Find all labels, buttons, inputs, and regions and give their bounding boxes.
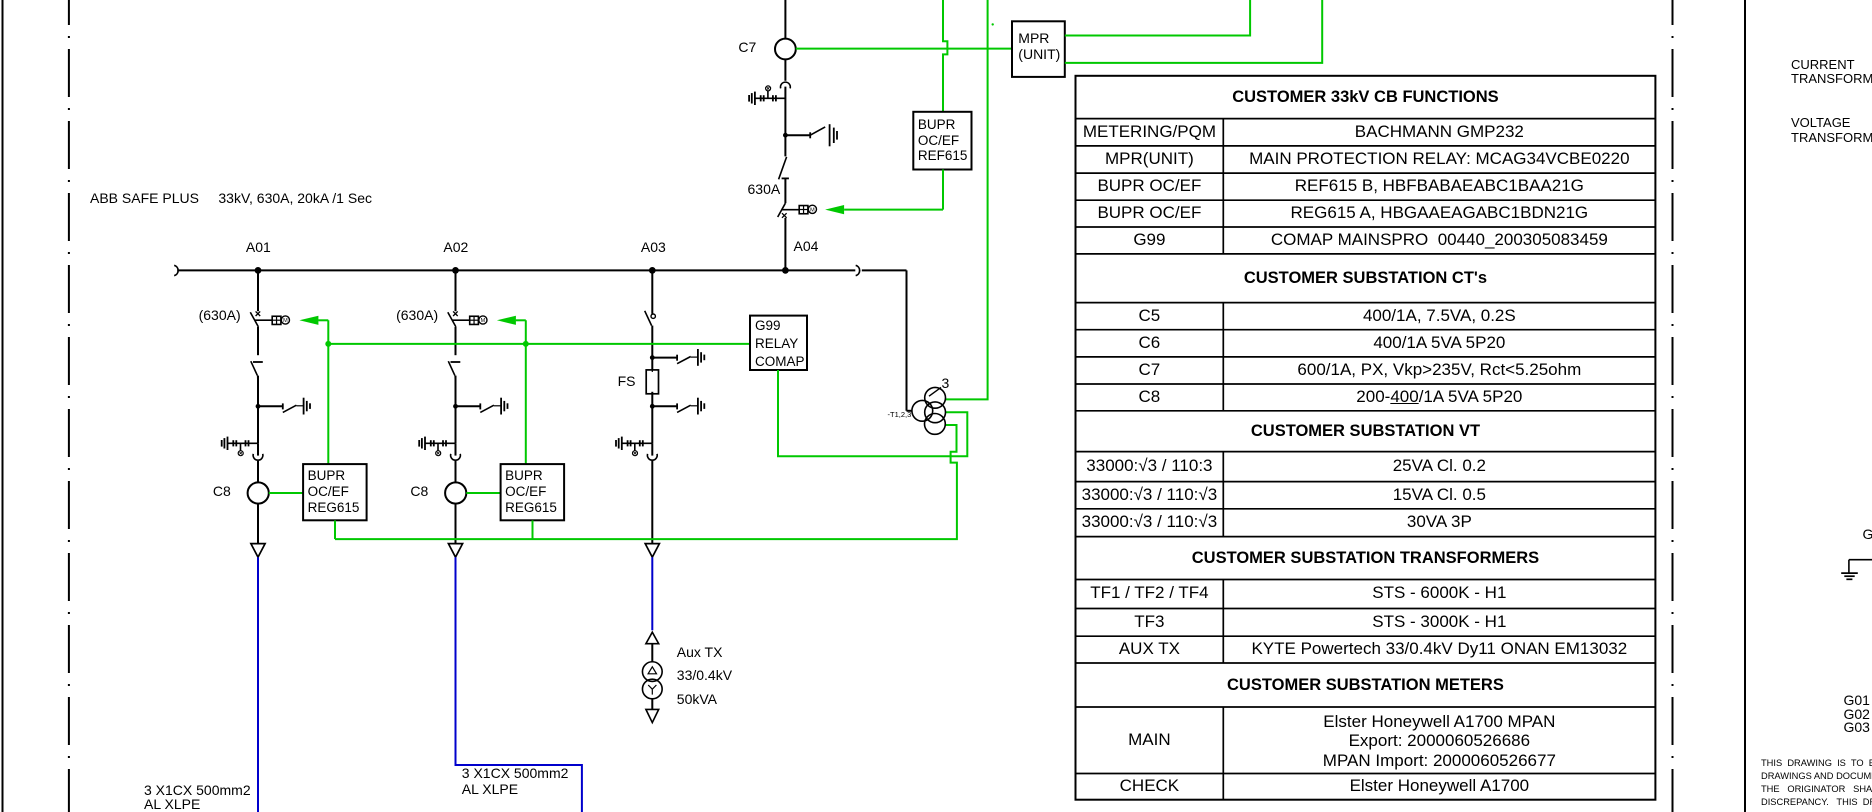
- table header CUSTOMER 33kV CB FUNCTIONS: [1076, 87, 1656, 107]
- table row METERING/PQM: [1076, 122, 1224, 143]
- text relay G99 line2: [755, 337, 798, 351]
- label C8 A01: [213, 484, 231, 498]
- label cable A02 line2: [462, 782, 518, 796]
- node A01 earth tap: [256, 404, 261, 409]
- table row VT3: [1076, 512, 1224, 533]
- node A03: [649, 267, 656, 274]
- wire A03 to plug contact: [651, 443, 653, 455]
- relay BUPR OC/EF REF615: [913, 112, 971, 170]
- current transformer C8 A02: [445, 482, 466, 503]
- table row TF1/TF2/TF4: [1076, 583, 1224, 604]
- wire Aux TX secondary: [651, 699, 653, 710]
- wire interlock A01 to BUPR relay: [318, 320, 328, 464]
- cable termination of A02: [448, 544, 462, 558]
- cable termination of A03: [645, 544, 659, 558]
- wire MPR output 1 to top: [1065, 0, 1250, 36]
- cable 3 X1CX 500mm2 AL XLPE feeder A01: [257, 557, 259, 812]
- cable termination of A01: [251, 544, 265, 558]
- current transformer C8 A01: [248, 482, 269, 503]
- wire A02 drop from busbar: [455, 271, 457, 311]
- wire interlock A04 to BUPR REF615: [844, 209, 943, 211]
- label FS: [618, 374, 636, 388]
- wire transformer winding to trip bus: [335, 425, 957, 539]
- wire busbar to transformers T1,2,3: [906, 270, 908, 410]
- withdrawable contact / earthing truck of A04: [749, 86, 785, 105]
- relay MPR (UNIT): [1012, 21, 1065, 77]
- label G03: [1844, 720, 1870, 734]
- interlock arrow to disconnector A01 motor: [299, 316, 318, 325]
- plug-in contact of A03: [647, 454, 657, 460]
- table row VT1: [1076, 456, 1224, 477]
- text relay MPR line1: [1018, 31, 1049, 45]
- table row TF3: [1076, 612, 1224, 633]
- fold line left (dash-dot): [68, 0, 70, 812]
- node A01: [255, 267, 262, 274]
- title block left border: [1744, 0, 1746, 812]
- circuit breaker A01: [251, 361, 263, 380]
- disconnector (630A) A02: [448, 311, 470, 327]
- wire into transformer primary: [907, 410, 913, 412]
- fuse-switch disconnector A03: [645, 311, 656, 326]
- wire A01 drop from busbar: [257, 271, 259, 311]
- wire interlock A02 to BUPR relay: [516, 320, 526, 464]
- relay G99 RELAY COMAP: [750, 316, 807, 370]
- label G02: [1844, 707, 1870, 721]
- wire A03 drop from busbar: [651, 271, 653, 314]
- label A01: [246, 240, 271, 254]
- disconnector 630A A04: [778, 203, 800, 218]
- circuit breaker A02: [448, 361, 460, 380]
- table row MAIN: [1076, 730, 1224, 751]
- svg-text:M: M: [283, 318, 288, 324]
- text relay REF615 line1: [918, 118, 956, 132]
- cable termination arrow at Aux TX: [646, 632, 659, 644]
- text relay REF615 line3: [918, 149, 968, 163]
- busbar 33kV: [174, 265, 906, 275]
- wire A02 breaker to contacts: [455, 376, 457, 444]
- label cable A01 line1: [144, 783, 251, 797]
- label G01: [1844, 693, 1870, 707]
- text relay REG615 A02 line2: [505, 485, 546, 499]
- earth switch on A03 upper: [652, 349, 704, 366]
- wire A02 CT to termination: [455, 504, 457, 544]
- wire incoming supply to C7: [784, 0, 786, 39]
- withdrawable contact / earthing truck of A03: [616, 437, 652, 456]
- wire trip circuit REF615 to top: [943, 0, 947, 112]
- earth switch on A04: [785, 124, 837, 146]
- label -T1,2,3: [888, 411, 912, 419]
- svg-text:M: M: [810, 207, 815, 213]
- wire A03 fuse to contacts: [651, 392, 653, 444]
- wire A04 disconnector to busbar: [784, 218, 786, 270]
- cable 3 X1CX 500mm2 AL XLPE feeder A02: [456, 557, 582, 812]
- table row AUX TX: [1076, 639, 1224, 660]
- wire A03 contact to termination: [651, 461, 653, 544]
- text relay REG615 A01 line2: [308, 485, 349, 499]
- table row C8: [1076, 387, 1224, 408]
- wire G99 relay to transformer winding: [778, 370, 967, 456]
- relay BUPR OC/EF REG615 A01: [303, 464, 367, 520]
- text relay MPR line2: [1018, 47, 1060, 61]
- wire A02 disconnector to breaker: [455, 327, 457, 355]
- current transformer C7: [775, 39, 796, 60]
- fuse FS A03: [646, 370, 658, 394]
- wire A01 CT to termination: [257, 504, 259, 544]
- wire BUPR A01 to trip bus: [334, 520, 336, 539]
- table CUSTOMER data grid: [1076, 76, 1656, 800]
- table row C7: [1076, 360, 1224, 381]
- label (630A) A01: [199, 308, 241, 322]
- node green tee A02: [523, 341, 529, 347]
- wire A03 switch to fuse: [651, 326, 653, 370]
- wire CT C8 A01 to BUPR relay: [269, 492, 303, 494]
- wire MPR output 2 to top: [1065, 0, 1322, 63]
- wire A01 disconnector to breaker: [257, 327, 259, 355]
- node A02: [452, 267, 459, 274]
- wire A01 breaker to contacts: [257, 376, 259, 444]
- wire metering to transformer T1,2,3: [946, 0, 988, 399]
- label C8 A02: [410, 484, 428, 498]
- text relay G99 line3: [755, 355, 805, 369]
- label G (clipped): [1863, 527, 1872, 541]
- table row BUPR OC/EF 2: [1076, 203, 1224, 224]
- table row VT2: [1076, 485, 1224, 506]
- table header CUSTOMER SUBSTATION VT: [1076, 421, 1656, 441]
- wire interlock bus to G99 relay: [328, 343, 750, 345]
- motor operator of disconnector A01: [272, 316, 289, 325]
- label cable A02 line1: [462, 766, 569, 780]
- label A03: [641, 240, 666, 254]
- table header CUSTOMER SUBSTATION TRANSFORMERS: [1076, 548, 1656, 568]
- wire REF615 to A04 interlock: [942, 170, 944, 210]
- label switchgear type: [90, 191, 372, 205]
- fold line right (dash-dot): [1672, 0, 1674, 812]
- legend voltage transformer l1: [1791, 116, 1850, 129]
- wire A02 contact to CT: [455, 461, 457, 483]
- node A02 earth tap: [453, 404, 458, 409]
- wire C7 to MPR relay: [796, 48, 1012, 50]
- text relay REG615 A02 line3: [505, 501, 557, 515]
- transformer T1,2,3 (3 units): [912, 387, 946, 434]
- wire A01 contact to CT: [257, 461, 259, 483]
- wire A04 contact to breaker: [784, 87, 786, 157]
- circuit breaker A04: [779, 157, 789, 179]
- label Aux TX: [677, 645, 723, 659]
- node A03 lower earth tap: [650, 404, 655, 409]
- svg-text:M: M: [481, 318, 486, 324]
- text relay REG615 A01 line3: [308, 501, 360, 515]
- label C7: [738, 40, 756, 54]
- relay BUPR OC/EF REG615 A02: [501, 464, 564, 520]
- table row C5: [1076, 306, 1224, 327]
- label cable A01 line2: [144, 797, 200, 811]
- earth arrow below Aux TX: [646, 709, 659, 722]
- transformer Aux TX 33/0.4kV 50kVA: [642, 662, 662, 699]
- node A04: [782, 267, 789, 274]
- plot artifact dot: [992, 23, 994, 25]
- label 50kVA: [677, 692, 717, 706]
- earth switch on A03 lower: [652, 398, 704, 415]
- wire A01 to plug contact: [257, 443, 259, 455]
- wire Aux TX primary: [651, 644, 653, 662]
- drawing frame left border: [2, 0, 4, 812]
- label (630A) A02: [396, 308, 438, 322]
- wire A04 breaker to disconnector: [784, 178, 786, 203]
- table row MPR(UNIT): [1076, 149, 1224, 170]
- interlock arrow to disconnector A04 motor: [825, 205, 844, 214]
- text relay REF615 line2: [918, 134, 959, 148]
- motor operator of disconnector A02: [470, 316, 487, 325]
- table header CUSTOMER SUBSTATION CTs: [1076, 268, 1656, 288]
- ground symbol title area: [1841, 560, 1872, 580]
- text relay REG615 A02 line1: [505, 469, 543, 483]
- label 630A: [748, 182, 781, 196]
- legend current transformer l2: [1791, 72, 1872, 85]
- label A04: [794, 239, 819, 253]
- table row BUPR OC/EF 1: [1076, 176, 1224, 197]
- wire C7 to plug contact A04: [784, 59, 786, 80]
- table header CUSTOMER SUBSTATION METERS: [1076, 675, 1656, 695]
- earth switch on A01: [258, 398, 310, 415]
- table row C6: [1076, 333, 1224, 354]
- label A02: [443, 240, 468, 254]
- node A04 earth tap: [783, 133, 788, 138]
- table row G99: [1076, 230, 1224, 251]
- wire BUPR A02 to trip bus: [532, 520, 534, 539]
- earth switch on A02: [456, 398, 508, 415]
- withdrawable contact / earthing truck of A01: [222, 437, 258, 456]
- label 33/0.4kV: [677, 668, 732, 682]
- node A03 upper earth tap: [650, 355, 655, 360]
- cable feeder A03 to Aux TX: [651, 557, 653, 630]
- plug-in contact of A01: [253, 454, 263, 460]
- wire A02 to plug contact: [455, 443, 457, 455]
- label 3 units: [942, 376, 950, 390]
- disconnector (630A) A01: [250, 311, 272, 327]
- text relay G99 line1: [755, 319, 781, 333]
- motor operator of disconnector 630A A04: [799, 205, 816, 214]
- interlock arrow to disconnector A02 motor: [497, 316, 516, 325]
- node green tee A01: [325, 341, 331, 347]
- text relay REG615 A01 line1: [308, 469, 346, 483]
- note disclaimer paragraph: [1761, 757, 1872, 809]
- wire CT C8 A02 to BUPR relay: [466, 492, 500, 494]
- legend voltage transformer l2: [1791, 131, 1872, 144]
- 3-phase marker slash: [929, 387, 941, 396]
- legend current transformer l1: [1791, 58, 1855, 71]
- table row CHECK: [1076, 776, 1224, 797]
- plug-in contact of A02: [451, 454, 461, 460]
- plug-in contact of A04: [781, 82, 791, 88]
- withdrawable contact / earthing truck of A02: [419, 437, 455, 456]
